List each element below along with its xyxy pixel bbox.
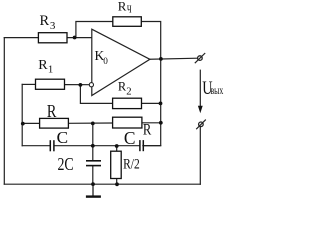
ground bbox=[86, 184, 101, 196]
capacitor 2C plates bbox=[86, 161, 101, 166]
resistor R3 bbox=[38, 33, 67, 43]
node C row center junction bbox=[91, 144, 95, 148]
label R1 bbox=[38, 58, 53, 75]
node R row left junction bbox=[21, 122, 25, 126]
wire C row center bbox=[55, 145, 140, 147]
resistor R left bbox=[40, 118, 69, 128]
label R2 bbox=[118, 80, 132, 98]
svg-text:ч: ч bbox=[127, 1, 132, 17]
svg-text:3: 3 bbox=[50, 20, 56, 32]
svg-text:R: R bbox=[143, 122, 152, 139]
svg-text:2: 2 bbox=[126, 86, 131, 98]
node bottom ground junction bbox=[91, 182, 95, 186]
wire R4 right to output vertical bbox=[141, 22, 160, 59]
wire RL to center node bbox=[68, 122, 112, 124]
wire inverting node down to R2 bbox=[80, 85, 112, 104]
wire C row right stub bbox=[144, 145, 161, 147]
resistor R right bbox=[113, 117, 142, 128]
node R row right junction bbox=[159, 121, 163, 125]
label Uvyx bbox=[202, 79, 223, 99]
terminal output bottom bbox=[196, 120, 206, 130]
wire node A up to R4 bbox=[76, 22, 113, 38]
resistor R2 bbox=[113, 98, 142, 108]
wire R2 right bbox=[142, 102, 161, 104]
node inverting input junction bbox=[79, 83, 83, 87]
svg-text:R: R bbox=[118, 0, 127, 14]
resistor R1 bbox=[36, 79, 65, 89]
wire left inner vertical bbox=[21, 84, 23, 145]
node A (non-inverting input junction) bbox=[73, 36, 77, 40]
capacitor C right plates bbox=[140, 140, 143, 151]
wire bottom terminal vertical bbox=[199, 127, 201, 184]
svg-text:2C: 2C bbox=[58, 154, 74, 174]
svg-text:R: R bbox=[40, 13, 50, 29]
terminal output top bbox=[195, 53, 205, 63]
label R3 bbox=[40, 13, 56, 32]
wire RL row left bbox=[22, 122, 39, 124]
wire R3 to node A and op-amp +input bbox=[67, 37, 92, 39]
svg-text:вых: вых bbox=[211, 83, 224, 97]
svg-text:0: 0 bbox=[103, 56, 108, 66]
wire left outer vertical bbox=[3, 38, 5, 185]
node C row R/2 junction bbox=[115, 144, 119, 148]
svg-text:C: C bbox=[124, 128, 136, 148]
wire bottom rail bbox=[4, 183, 200, 185]
svg-text:R: R bbox=[47, 101, 57, 121]
node bottom R/2 junction bbox=[115, 182, 119, 186]
wire R/2 bottom stub bbox=[116, 179, 118, 185]
wire output vertical middle bbox=[160, 59, 162, 104]
resistor R/2 bbox=[111, 151, 122, 178]
capacitor C left plates bbox=[50, 140, 54, 151]
label K0 bbox=[95, 48, 109, 66]
wire R/2 top stub bbox=[116, 146, 118, 151]
wire 2C bottom to rail bbox=[92, 166, 94, 184]
wire R1 right to inverting input bbox=[65, 84, 90, 86]
svg-text:C: C bbox=[57, 128, 68, 147]
arrow Uout bbox=[198, 70, 203, 114]
wire R3 row left bbox=[4, 37, 38, 39]
node R2 right junction bbox=[159, 102, 163, 106]
wire R1 left bbox=[22, 83, 35, 85]
wire C row left bbox=[22, 145, 49, 147]
svg-text:R/2: R/2 bbox=[123, 156, 140, 172]
wire op-amp output row bbox=[150, 58, 198, 59]
node R row center junction bbox=[91, 122, 95, 126]
wire output vertical lower bbox=[143, 103, 161, 145]
node output junction bbox=[159, 57, 163, 61]
op-amp inverting input circle bbox=[89, 83, 93, 87]
wire RR right bbox=[142, 122, 161, 124]
resistor R4 bbox=[113, 17, 142, 27]
op-amp U1 (K0) bbox=[92, 29, 150, 95]
label R4 bbox=[118, 0, 132, 17]
svg-text:1: 1 bbox=[48, 64, 53, 76]
wire center vertical through 2C bbox=[92, 123, 94, 160]
svg-text:R: R bbox=[38, 58, 48, 73]
